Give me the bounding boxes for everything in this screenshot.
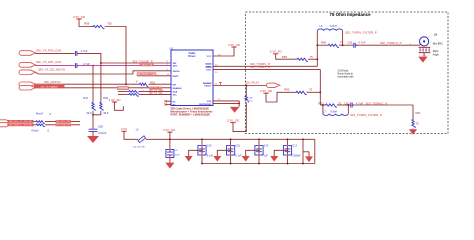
wire rnet2 out [45, 124, 80, 126]
off-page connector SDI_TX_EN [19, 86, 33, 90]
wire C11 to U5 pin 8 [77, 53, 171, 63]
capacitor C16 0.1uF [198, 146, 206, 155]
net label SDI_SCL (highlighted right) [56, 120, 71, 123]
svg-text:Rnet2: Rnet2 [32, 129, 40, 133]
svg-text:SDI_SDA_3V3: SDI_SDA_3V3 [56, 124, 71, 127]
ground (C50) [87, 136, 99, 143]
svg-text:SCL: SCL [173, 94, 178, 96]
wire J2 shield to ground [423, 53, 425, 57]
svg-text:R58: R58 [84, 22, 90, 26]
resistor Rnet2 0 [35, 124, 45, 127]
ground (J2) [418, 57, 427, 63]
wire row3 to U5 pin 4 [36, 71, 171, 74]
svg-text:CENTERPAD: CENTERPAD [199, 103, 212, 106]
svg-text:C14: C14 [264, 144, 269, 147]
net label SDI_SCL_3V3 (highlighted) [8, 120, 34, 123]
wire R59 to node [308, 58, 317, 60]
svg-text:75: 75 [310, 55, 314, 59]
ground (C16) [185, 156, 193, 162]
svg-text:SDI_TX_RSET: SDI_TX_RSET [140, 74, 154, 76]
svg-text:3.3V_SD: 3.3V_SD [73, 15, 86, 19]
svg-text:VSS: VSS [207, 101, 212, 103]
wire RSET to U5 pin 14 [137, 75, 171, 77]
svg-text:SDI_SCL_CT_3V3_SD: SDI_SCL_CT_3V3_SD [9, 121, 32, 123]
off-page connector SDI_SCL (clipped) [0, 120, 8, 124]
svg-text:49.9: 49.9 [103, 111, 109, 115]
wire bypass column C13 [287, 139, 289, 145]
wire C82 to termination [352, 104, 413, 106]
svg-text:Rnet3: Rnet3 [36, 112, 44, 116]
wire R51 to U5 pin 5 [148, 83, 171, 85]
wire bias P [276, 54, 296, 59]
svg-text:49.9: 49.9 [86, 111, 92, 115]
wire VCC pin 16 [213, 47, 234, 56]
svg-text:750: 750 [107, 22, 112, 26]
wire FAULT pullup [245, 86, 247, 96]
wire SCL row [118, 93, 128, 95]
capacitor C15 0.1uF [227, 146, 235, 155]
svg-text:3.3V: 3.3V [121, 127, 127, 131]
wire stub to ground (C14) [246, 150, 259, 156]
svg-text:R59: R59 [282, 55, 288, 59]
connector J2 mini BNC [420, 37, 429, 46]
wire 3.3V_SD to R58 [79, 19, 92, 27]
svg-text:ENABLE: ENABLE [173, 87, 183, 90]
svg-text:Driver: Driver [188, 55, 195, 58]
capacitor C50 0.01uF [89, 129, 98, 131]
off-page connector SDI_TX_P input [19, 51, 33, 56]
svg-text:3.3V_SD: 3.3V_SD [227, 118, 240, 122]
capacitor C13 2200pF [283, 146, 291, 155]
svg-text:SDI_TX_P/M_CML: SDI_TX_P/M_CML [36, 49, 62, 53]
svg-text:SDA: SDA [173, 90, 178, 93]
wire bypass column C15 [230, 139, 232, 145]
svg-text:SDO: SDO [173, 66, 178, 68]
net label box SDI_SDA small [118, 87, 129, 90]
svg-text:SDI_TX0RV_FILTER_P: SDI_TX0RV_FILTER_P [345, 30, 377, 34]
svg-text:Angle: Angle [433, 54, 440, 57]
svg-text:75: 75 [309, 88, 313, 92]
wire 3.3V to L5 [124, 131, 138, 139]
net label SDI_RC_SD (highlighted small) [149, 87, 161, 90]
svg-text:0.1uF: 0.1uF [236, 155, 243, 158]
svg-text:C16: C16 [207, 144, 212, 147]
svg-text:SDI_TXCAP_N: SDI_TXCAP_N [140, 64, 154, 67]
svg-text:4.7uF: 4.7uF [81, 49, 88, 53]
svg-text:1uF: 1uF [264, 155, 269, 158]
off-page connector SDI_SDA (clipped) [0, 122, 8, 126]
wire EN row to U5 pin 2 [65, 87, 172, 89]
wire column R47 [92, 66, 94, 102]
wire R62 to node N [307, 91, 321, 93]
svg-text:R61: R61 [416, 111, 422, 115]
svg-text:SDI_TX0RV_FILTER_N: SDI_TX0RV_FILTER_N [350, 113, 382, 117]
svg-text:SDI_TX_M/P_CML: SDI_TX_M/P_CML [36, 60, 62, 64]
ferrite bead L5 120 ohm FB [138, 136, 146, 143]
resistor R63 75 [324, 104, 337, 107]
ground (C15) [213, 156, 221, 162]
wire SDA row [118, 90, 128, 92]
svg-text:SDI_SCL_3V3: SDI_SCL_3V3 [56, 121, 71, 123]
U5 NC stubs [166, 100, 172, 102]
inductor L7 6.8nH [322, 105, 324, 114]
net label SDI_SDA (highlighted right) [56, 124, 71, 127]
off-page connector SDI_TX_M input [19, 63, 33, 68]
resistor R59 75 [296, 58, 308, 61]
ground (R61) [409, 129, 417, 134]
svg-text:SDI_RST/IN: SDI_RST/IN [44, 80, 61, 84]
resistor R52 [128, 91, 139, 94]
wire termination down [412, 105, 414, 119]
wire join R47 R49 [93, 111, 101, 115]
svg-text:SDI_TXCAP_P: SDI_TXCAP_P [132, 59, 152, 63]
wire R61 to ground [412, 128, 414, 131]
svg-text:3.3V_SD: 3.3V_SD [228, 43, 241, 47]
svg-text:6.8nH: 6.8nH [331, 110, 338, 113]
off-page connector SDI_FAULT oval [267, 83, 277, 87]
wire R53 to U5 pin 3 [139, 93, 171, 95]
ground (C9) [165, 163, 174, 169]
svg-text:C15: C15 [236, 144, 241, 147]
svg-text:120 ohm FB: 120 ohm FB [133, 146, 145, 148]
power tick on FAULT wire [219, 83, 222, 86]
resistor R60 75 [327, 44, 339, 47]
svg-text:SDI_TX0RxC_N: SDI_TX0RxC_N [366, 101, 388, 105]
75 Ohm Impedance dashed box [246, 12, 449, 134]
svg-text:SDI_TX_SD_HD/3G: SDI_TX_SD_HD/3G [38, 67, 66, 71]
capacitor C12 4.7uF [76, 63, 77, 68]
svg-text:C13: C13 [292, 144, 297, 147]
svg-text:75 Ohm Impedance: 75 Ohm Impedance [329, 12, 371, 17]
wire C12 to U5 pin 7 (highlighted) [77, 65, 171, 67]
svg-text:Mini BNC: Mini BNC [433, 43, 443, 46]
wire row2 (highlighted) [35, 65, 74, 67]
wire DDO pin 12 to filter P [213, 65, 317, 67]
svg-text:FAULT: FAULT [204, 85, 212, 88]
svg-text:VCC: VCC [207, 56, 212, 58]
wire column R49 [100, 63, 102, 101]
svg-text:22uF: 22uF [175, 154, 181, 156]
svg-text:SDI_FAULT: SDI_FAULT [245, 81, 259, 85]
wire bypass column C16 [201, 139, 203, 145]
off-page connector SDI_TX_SD_HD [19, 70, 33, 75]
resistor R49 49.9 [100, 101, 103, 111]
wire C9 to ground [169, 158, 171, 163]
wire L5 to rail [146, 138, 315, 140]
wire VSS pin 17 [213, 101, 239, 107]
wire node column N [319, 69, 321, 105]
ground (C13) [270, 156, 278, 162]
wire R63 to C82 [337, 104, 350, 106]
wire R63 row [320, 104, 324, 106]
svg-text:SD/HD: SD/HD [173, 71, 180, 73]
svg-text:PART_NUMBER = LMH0303SQE: PART_NUMBER = LMH0303SQE [171, 113, 211, 117]
ground (rail end) [305, 156, 313, 162]
wire R60 row [317, 44, 327, 46]
wire R52 to U5 pin 6 [139, 90, 171, 92]
svg-text:3.3V_SD: 3.3V_SD [260, 89, 273, 93]
wire rail right end [314, 139, 316, 163]
wire DDO pin 13 to filter N [213, 68, 320, 70]
wire R54 to 3.3V_SD [233, 102, 246, 131]
svg-text:NC: NC [173, 104, 177, 106]
wire stub to ground (rail end) [303, 151, 309, 153]
svg-text:3.3V_SD: 3.3V_SD [163, 128, 176, 132]
svg-text:SDI_TX_ENABLE: SDI_TX_ENABLE [40, 86, 58, 89]
resistor R61 75 [412, 119, 415, 129]
svg-text:3.3V_SD: 3.3V_SD [270, 50, 283, 54]
svg-text:SDI_TX_SCL: SDI_TX_SCL [149, 93, 164, 95]
ground (U5 VSS) [230, 107, 239, 113]
svg-text:WP: WP [173, 84, 177, 86]
wire R58 to net SDI_TXCAP_P [105, 27, 127, 85]
svg-text:6.8nH: 6.8nH [330, 25, 337, 28]
wire bias N U-shape [266, 92, 295, 102]
wire C81 to BNC [355, 44, 419, 46]
svg-text:75: 75 [340, 41, 344, 45]
wire rnet3 out [45, 121, 80, 123]
capacitor C14 1uF [255, 146, 263, 155]
resistor R62 75 [295, 91, 307, 94]
svg-text:C50: C50 [98, 124, 103, 128]
resistor R47 49.9 [92, 101, 95, 111]
off-page connector SDI_RST [19, 82, 33, 86]
svg-text:secondary side: secondary side [338, 76, 355, 79]
wire L6 right leg [342, 31, 344, 45]
net label SDI_TX_ENABLE (highlighted) [34, 85, 65, 88]
svg-text:DDO: DDO [206, 69, 211, 71]
capacitor C11 4.7uF [76, 51, 77, 56]
wire R60 to C81 [339, 44, 353, 46]
svg-text:R62: R62 [284, 88, 290, 92]
resistor R53 [128, 94, 139, 97]
resistor R58 750 [92, 25, 104, 28]
svg-text:1%: 1% [249, 100, 252, 102]
wire RST row [35, 83, 138, 85]
svg-text:NC: NC [173, 101, 177, 103]
resistor Rnet3 0 [35, 121, 45, 124]
wire stub to ground (C16) [189, 150, 202, 156]
svg-text:0.01uF: 0.01uF [98, 131, 107, 135]
inductor L6 6.8nH [317, 29, 342, 31]
wire sda to rnet2 [34, 124, 35, 126]
resistor R54 47k 1% [245, 95, 248, 102]
wire bottom rail [202, 163, 315, 165]
capacitor C9 22uF [169, 139, 171, 149]
svg-text:SDI_TX0RxC_P: SDI_TX0RxC_P [380, 41, 402, 45]
svg-text:75: 75 [416, 122, 420, 126]
svg-text:4.7uF: 4.7uF [358, 41, 366, 45]
svg-text:R47: R47 [83, 96, 88, 100]
svg-text:SDI_TX0RV_N: SDI_TX0RV_N [250, 65, 270, 69]
wire scl to rnet3 [34, 121, 35, 123]
ground (C14) [242, 156, 250, 162]
op-amp U5 cable driver body [171, 50, 213, 106]
svg-text:SDI_TX_SDA: SDI_TX_SDA [149, 89, 164, 92]
net label SDI_TXCAP_N (boxed) [140, 63, 153, 66]
svg-text:U5: U5 [170, 47, 174, 51]
svg-text:C81: C81 [347, 41, 353, 45]
wire pullup U [115, 102, 124, 110]
svg-text:2200pF: 2200pF [292, 155, 301, 158]
svg-text:0.1uF: 0.1uF [207, 155, 214, 158]
wire stub to ground (C13) [274, 150, 287, 156]
wire rail stub vertical [302, 139, 304, 163]
capacitor C81 4.7uF [354, 43, 355, 48]
wire node column P [316, 31, 318, 67]
wire FAULT pin 15 [213, 85, 267, 87]
net label SDI_TX_RSET (highlighted) [137, 73, 156, 76]
net label SDI_SDA_3V3 (highlighted) [8, 123, 34, 126]
wire stub to ground (C15) [217, 150, 230, 156]
svg-text:SDI_SDA_CT_3V3_SD: SDI_SDA_CT_3V3_SD [9, 124, 32, 127]
wire bypass column C14 [258, 139, 260, 145]
capacitor C82 4.7uF [351, 103, 352, 108]
wire row1 [35, 52, 74, 54]
resistor R51 0 [138, 83, 148, 86]
wire CENTERPAD pin [213, 102, 239, 104]
svg-text:J2#: J2# [433, 33, 438, 36]
svg-text:R60: R60 [321, 41, 327, 45]
svg-text:RSET: RSET [173, 76, 179, 78]
wire C50 to ground [92, 131, 94, 136]
J2 shield pins [419, 47, 431, 52]
svg-text:3.3V_SD: 3.3V_SD [108, 98, 121, 102]
svg-text:5: 5 [428, 55, 429, 57]
